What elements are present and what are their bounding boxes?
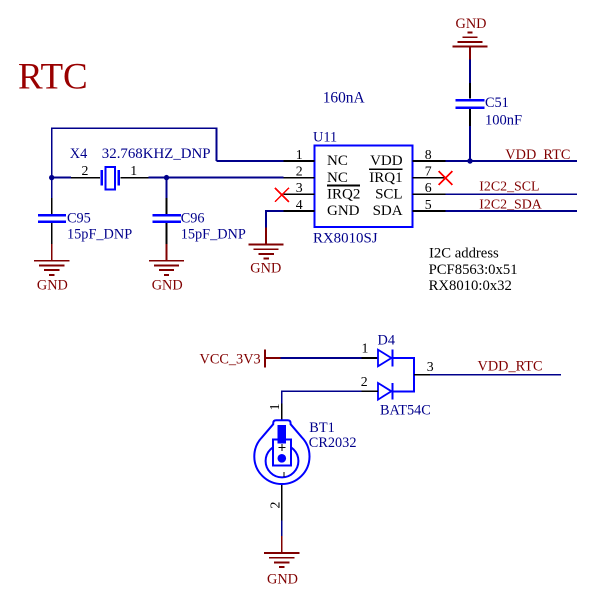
svg-text:SCL: SCL — [375, 186, 403, 202]
capacitor C95 pin top — [51, 198, 53, 214]
wire U11 pin 4 to ground — [266, 211, 284, 228]
svg-text:C95: C95 — [67, 211, 91, 227]
power port VCC_3V3 stem — [265, 357, 281, 359]
wire crystal pin 1 to node B — [149, 177, 167, 179]
wire node B to U11 pin 2 — [167, 177, 284, 179]
svg-text:IRQ1: IRQ1 — [369, 170, 402, 186]
svg-text:7: 7 — [425, 163, 432, 178]
wire I2C2_SCL from pin 6 — [446, 193, 578, 195]
svg-text:BT1: BT1 — [309, 420, 334, 436]
svg-text:160nA: 160nA — [323, 89, 365, 106]
D4 pin 3 stub — [414, 374, 430, 376]
overline IRQ1 — [369, 168, 403, 170]
svg-text:100nF: 100nF — [485, 113, 522, 129]
svg-text:I2C2_SCL: I2C2_SCL — [479, 179, 539, 194]
capacitor C51 pin top — [469, 83, 471, 99]
svg-text:IRQ2: IRQ2 — [327, 186, 360, 202]
svg-text:15pF_DNP: 15pF_DNP — [67, 227, 132, 243]
battery BT1 symbol — [254, 420, 309, 484]
svg-text:BAT54C: BAT54C — [380, 402, 431, 418]
wire to U11 pin 1 — [216, 160, 283, 162]
svg-text:I2C2_SDA: I2C2_SDA — [479, 197, 542, 212]
crystal X4 pin 2 stub — [71, 177, 100, 179]
wire top loop left vertical — [51, 127, 53, 177]
svg-text:VDD: VDD — [370, 153, 403, 169]
svg-text:2: 2 — [296, 163, 303, 178]
capacitor C51 pin bottom — [469, 109, 471, 126]
svg-text:3: 3 — [427, 359, 434, 374]
battery BT1 pin 2 stub — [281, 485, 283, 521]
svg-text:RX8010SJ: RX8010SJ — [313, 230, 378, 246]
battery BT1 pin 1 stub — [281, 404, 283, 427]
wire VDD_RTC from pin 8 — [446, 160, 578, 162]
ground symbol below C95 — [34, 244, 69, 275]
U11 pin 5 stub — [413, 210, 446, 212]
wire top loop right vertical — [215, 127, 217, 161]
node A junction — [49, 175, 54, 180]
svg-text:3: 3 — [296, 180, 303, 195]
node B junction — [164, 175, 169, 180]
D4 pin 1 stub — [362, 357, 378, 359]
svg-text:NC: NC — [327, 170, 348, 186]
svg-text:GND: GND — [37, 277, 68, 293]
overline IRQ2 — [327, 185, 360, 187]
power port VCC_3V3 bar — [264, 349, 266, 367]
capacitor C96 pin bottom — [166, 223, 168, 244]
svg-text:1: 1 — [267, 403, 282, 410]
capacitor C95 pin bottom — [51, 223, 53, 244]
ground symbol above C51 (flipped) — [452, 33, 487, 60]
wire node A to crystal pin 2 — [52, 177, 71, 179]
no-connect X on pin 3 — [275, 188, 289, 202]
wire node A down to C95 — [51, 178, 53, 198]
ground symbol below C96 — [149, 244, 184, 275]
svg-text:U11: U11 — [313, 130, 337, 146]
U11 pin 2 stub — [284, 177, 315, 179]
svg-text:4: 4 — [296, 197, 303, 212]
wire VCC_3V3 to D4 pin 1 — [281, 357, 362, 359]
svg-text:2: 2 — [361, 374, 368, 389]
svg-text:GND: GND — [250, 261, 281, 277]
svg-text:8: 8 — [425, 147, 432, 162]
svg-text:GND: GND — [267, 572, 298, 588]
svg-text:VDD_RTC: VDD_RTC — [478, 359, 543, 375]
U11 pin 1 stub — [284, 160, 315, 162]
svg-text:RX8010:0x32: RX8010:0x32 — [429, 278, 512, 294]
svg-text:GND: GND — [327, 203, 360, 219]
ground symbol at U11 pin 4 — [249, 228, 284, 259]
D4 cathode connector — [394, 358, 414, 391]
U11 pin 7 stub — [413, 177, 446, 179]
no-connect X on pin 7 — [439, 171, 453, 185]
capacitor C96 pin top — [166, 198, 168, 214]
diode D4 bottom element — [378, 383, 392, 400]
wire D4 pin 3 to VDD_RTC — [430, 374, 561, 376]
D4 pin 2 stub — [362, 390, 378, 392]
svg-text:2: 2 — [268, 501, 283, 508]
svg-text:NC: NC — [327, 153, 348, 169]
junction at C51 and VDD_RTC — [467, 158, 472, 163]
wire battery to D4 pin 2 — [282, 391, 362, 403]
svg-text:X4: X4 — [70, 146, 87, 162]
wire gnd to C51 — [469, 60, 471, 84]
svg-text:6: 6 — [425, 180, 432, 195]
svg-text:I2C address: I2C address — [429, 246, 499, 262]
wire top loop horizontal — [52, 127, 217, 129]
svg-text:RTC: RTC — [18, 57, 88, 98]
U11 pin 8 stub — [413, 160, 446, 162]
op-amp U11 body — [315, 145, 413, 227]
svg-text:D4: D4 — [378, 332, 395, 348]
svg-text:VCC_3V3: VCC_3V3 — [200, 352, 261, 368]
diode D4 top element — [378, 350, 392, 367]
svg-text:C51: C51 — [485, 95, 509, 111]
svg-text:SDA: SDA — [373, 203, 403, 219]
svg-text:GND: GND — [152, 277, 183, 293]
wire battery pin 2 to ground — [281, 520, 283, 537]
svg-text:2: 2 — [82, 163, 89, 178]
crystal X4 pin 1 stub — [120, 177, 148, 179]
svg-text:1: 1 — [362, 341, 369, 356]
wire node B down to C96 — [166, 178, 168, 198]
ground symbol below battery — [264, 536, 299, 567]
svg-text:C96: C96 — [181, 211, 205, 227]
svg-text:5: 5 — [425, 197, 432, 212]
capacitor C96 plates — [153, 215, 181, 222]
U11 pin 3 stub — [284, 193, 315, 195]
svg-text:GND: GND — [456, 16, 487, 32]
wire C51 to VDD_RTC net — [469, 126, 471, 161]
crystal X4 body — [102, 167, 119, 190]
svg-text:CR2032: CR2032 — [309, 435, 357, 451]
wire I2C2_SDA from pin 5 — [446, 210, 578, 212]
U11 pin 4 stub — [284, 210, 315, 212]
U11 pin 6 stub — [413, 193, 446, 195]
svg-text:32.768KHZ_DNP: 32.768KHZ_DNP — [102, 146, 211, 162]
svg-text:PCF8563:0x51: PCF8563:0x51 — [429, 262, 518, 278]
capacitor C51 plates — [455, 100, 484, 108]
svg-text:1: 1 — [130, 163, 137, 178]
svg-text:1: 1 — [296, 147, 303, 162]
svg-text:15pF_DNP: 15pF_DNP — [181, 227, 246, 243]
capacitor C95 plates — [38, 215, 66, 222]
